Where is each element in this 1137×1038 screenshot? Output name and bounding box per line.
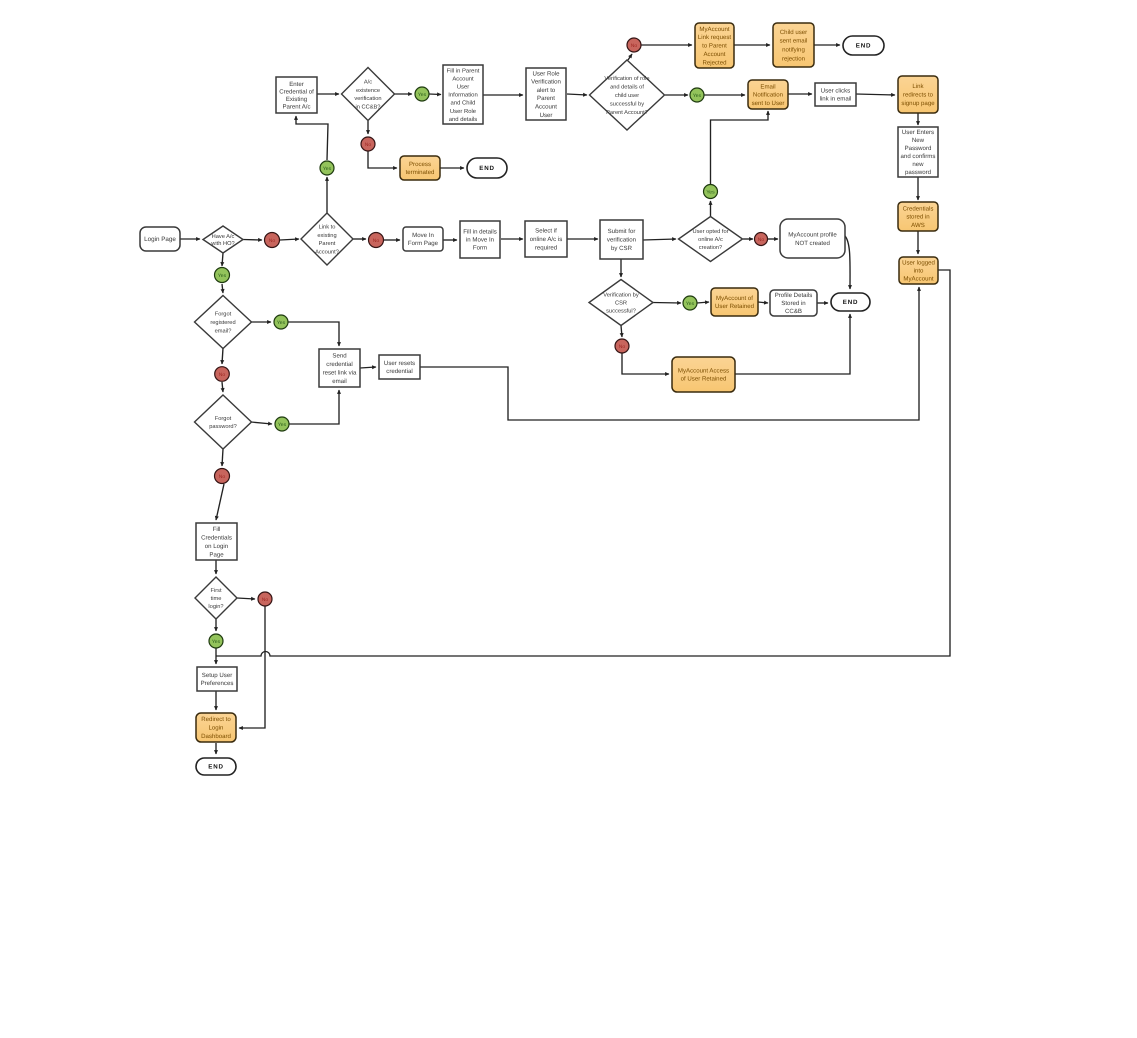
svg-text:Setup UserPreferences: Setup UserPreferences	[201, 672, 234, 687]
wire User opted diamond up to Yes	[710, 201, 712, 216]
label Yes A/c existence	[415, 87, 429, 101]
label No Forgot email	[215, 367, 230, 382]
node Link redirects to signup page	[898, 76, 938, 113]
wire Verification role to Yes	[665, 94, 688, 96]
wire MyAccount Access to END	[735, 314, 850, 374]
wire Yes to Send credential link	[288, 322, 339, 346]
node User resets credential	[379, 355, 420, 379]
node Fill in details in Move In Form	[460, 221, 500, 258]
label No Verification CSR	[615, 339, 629, 353]
wire Yes to MyAccount of User Retained	[697, 302, 709, 303]
label Yes Verification role	[690, 88, 704, 102]
terminator END profile	[831, 293, 870, 311]
wire Move In to Fill in details	[443, 239, 457, 241]
wire Profile Details to END	[817, 302, 828, 304]
wire User opted to No	[743, 238, 753, 240]
svg-text:No: No	[619, 344, 626, 350]
terminator END dashboard	[196, 758, 236, 775]
wire Yes down to Setup User Preferences	[215, 648, 217, 664]
decision Link to existing Parent Account?	[301, 213, 353, 265]
label No Have A/c	[265, 233, 280, 248]
wire User Role to Verification role diamond	[567, 94, 587, 95]
wire No down left to Redirect Dashboard	[239, 606, 265, 728]
svg-text:No: No	[365, 142, 372, 148]
wire Submit down to Verification by CSR	[620, 259, 622, 277]
node Fill Credentials on Login Page	[196, 523, 237, 560]
wire No to MyAccount profile NOT created	[768, 238, 778, 240]
svg-text:Yes: Yes	[218, 273, 227, 279]
svg-text:Processterminated: Processterminated	[406, 161, 435, 176]
decision Forgot password?	[195, 395, 252, 449]
node Child user sent email	[773, 23, 814, 67]
node MyAccount Access of User Retained	[672, 357, 735, 392]
wire A/c existence down to No	[367, 121, 369, 134]
wire Fill in Parent to User Role	[483, 94, 523, 96]
wire Redirect to END	[215, 743, 217, 754]
node Submit for verification by CSR	[600, 220, 643, 259]
svg-text:Yes: Yes	[277, 320, 286, 326]
node Enter Credential of Existing Parent A/c	[276, 77, 317, 113]
decision User opted for online A/c creation?	[679, 217, 743, 262]
decision Have A/c with HO?	[203, 226, 243, 253]
svg-text:MyAccount ofUser Retained: MyAccount ofUser Retained	[715, 295, 754, 310]
svg-text:No: No	[758, 237, 765, 243]
wire Yes to Fill in Parent	[429, 93, 441, 96]
node User clicks link in email	[815, 83, 856, 106]
wire No to Move In Form Page	[384, 239, 400, 241]
node MyAccount of User Retained	[711, 288, 758, 316]
svg-text:END: END	[843, 299, 858, 306]
node Email Notification sent to User	[748, 80, 788, 109]
svg-text:User resetscredential: User resetscredential	[384, 360, 415, 375]
node Setup User Preferences	[197, 667, 237, 691]
node MyAccount Link request Rejected	[695, 23, 734, 68]
node Select if online A/c is required	[525, 221, 567, 257]
wire Link redirects down to User Enters	[917, 113, 919, 125]
svg-text:Yes: Yes	[278, 422, 287, 428]
wire Link existing up to Yes	[326, 177, 328, 213]
decision A/c existence verification in CC&B?	[342, 68, 395, 121]
terminator END process terminated	[467, 158, 507, 178]
wire Enter Credential to A/c existence	[317, 93, 339, 95]
label Yes Have A/c	[215, 268, 230, 283]
wire No to Process terminated	[368, 151, 397, 168]
wire User logged right down long to Setup junction	[216, 270, 950, 656]
wire Forgot email down to No	[222, 348, 223, 364]
terminator END reject flow	[843, 36, 884, 55]
svg-text:Child usersent emailnotifyingr: Child usersent emailnotifyingrejection	[780, 29, 808, 62]
wire Link request to Child user	[734, 44, 770, 46]
node Profile Details Stored in CC&B	[770, 290, 817, 316]
node User logged into MyAccount	[899, 257, 938, 284]
svg-text:No: No	[269, 238, 276, 244]
svg-text:Submit forverificationby CSR: Submit forverificationby CSR	[607, 228, 636, 252]
wire Verification role up to No	[628, 54, 632, 60]
node Fill in Parent Account User Information	[443, 65, 483, 124]
label Yes User opted	[704, 185, 718, 199]
node MyAccount profile NOT created	[780, 219, 845, 258]
decision Verification by CSR successful?	[589, 280, 653, 326]
wire Child user to END	[814, 44, 840, 46]
label No A/c existence	[361, 137, 375, 151]
node Login Page	[140, 227, 180, 251]
node Process terminated	[400, 156, 440, 180]
label No Link existing	[369, 233, 384, 248]
decision First time login?	[195, 577, 237, 619]
wire Yes up to Enter Credential	[296, 116, 328, 160]
wire Credentials stored down to User logged	[917, 231, 919, 254]
wire Submit to User opted diamond	[643, 239, 676, 240]
label No Verification role	[627, 38, 641, 52]
decision Verification of role and details	[590, 60, 665, 130]
wire Forgot password down to No	[222, 449, 223, 466]
decision Forgot registered email?	[195, 296, 252, 349]
wire Have A/c down to Yes	[222, 253, 223, 266]
svg-text:Yes: Yes	[323, 166, 332, 172]
wire Yes up to Email Notification	[711, 111, 769, 184]
svg-text:No: No	[631, 43, 638, 49]
label Yes Link existing	[320, 161, 334, 175]
wire User clicks to Link redirects	[856, 94, 895, 95]
label Yes Forgot password	[275, 417, 289, 431]
wire Login Page to Have A/c diamond	[180, 238, 200, 240]
svg-text:MyAccountLink requestto Parent: MyAccountLink requestto ParentAccountRej…	[698, 26, 732, 67]
svg-text:Yes: Yes	[686, 301, 695, 307]
svg-text:No: No	[219, 372, 226, 378]
wire No to MyAccount Access	[622, 353, 669, 374]
svg-text:Login Page: Login Page	[144, 236, 176, 243]
svg-text:MyAccount Accessof User Retain: MyAccount Accessof User Retained	[678, 368, 729, 383]
wire User Enters down to Credentials stored	[917, 177, 919, 200]
wire Yes to Email Notification	[704, 94, 745, 96]
label Yes First time	[209, 634, 223, 648]
wire No slant to Fill Credentials	[216, 484, 224, 520]
label No Forgot password	[215, 469, 230, 484]
wire Have A/c to No	[243, 239, 262, 242]
svg-text:Yes: Yes	[212, 639, 221, 645]
wire MyAccount profile NOT created to END curve	[845, 236, 850, 289]
wire User resets long to User logged	[420, 287, 919, 420]
svg-text:Yes: Yes	[418, 92, 427, 98]
wire First time to No	[237, 598, 255, 599]
wire Send credential to User resets	[360, 367, 376, 368]
svg-text:END: END	[856, 43, 871, 50]
svg-text:Firsttimelogin?: Firsttimelogin?	[208, 587, 223, 610]
svg-text:Yes: Yes	[706, 189, 715, 195]
svg-text:User clickslink in email: User clickslink in email	[820, 88, 852, 103]
wire A/c existence to Yes	[395, 93, 413, 95]
wire MyAccount Retained to Profile Details	[758, 302, 768, 303]
svg-text:Yes: Yes	[693, 93, 702, 99]
node Credentials stored in AWS	[898, 202, 938, 231]
svg-text:No: No	[219, 474, 226, 480]
label Yes Verification CSR	[683, 296, 697, 310]
node Send credential reset link	[319, 349, 360, 387]
label Yes Forgot email	[274, 315, 288, 329]
wire Fill Credentials to First time diamond	[215, 560, 217, 574]
wire Forgot password to Yes	[251, 422, 272, 424]
wire First time down to Yes	[215, 619, 217, 631]
node Move In Form Page	[403, 227, 443, 251]
wire Process terminated to END	[440, 167, 464, 169]
wire Yes down to Forgot email	[222, 284, 223, 293]
label No User opted	[755, 233, 768, 246]
wire No to Link to existing diamond	[280, 239, 299, 240]
svg-text:No: No	[373, 238, 380, 244]
wire Yes up to Send credential bottom	[289, 390, 339, 424]
wire Select to Submit	[567, 238, 598, 240]
svg-text:No: No	[262, 597, 269, 603]
svg-text:END: END	[479, 165, 494, 172]
wire Setup to Redirect Dashboard	[215, 691, 217, 710]
wire No down to Forgot password	[222, 382, 223, 392]
wire Verification CSR to Yes	[653, 302, 681, 305]
svg-text:END: END	[208, 764, 223, 771]
wire Verification CSR down to No	[621, 326, 622, 338]
wire Email Notification to User clicks	[788, 93, 812, 95]
node Redirect to Login Dashboard	[196, 713, 236, 742]
label No First time	[258, 592, 272, 606]
node User Enters New Password	[898, 127, 938, 177]
node User Role Verification alert	[526, 68, 566, 120]
wire No to MyAccount Link request	[641, 44, 692, 46]
wire Fill details to Select if	[501, 238, 523, 240]
wire Link existing to No	[353, 238, 366, 240]
wire Forgot email to Yes	[251, 321, 271, 323]
